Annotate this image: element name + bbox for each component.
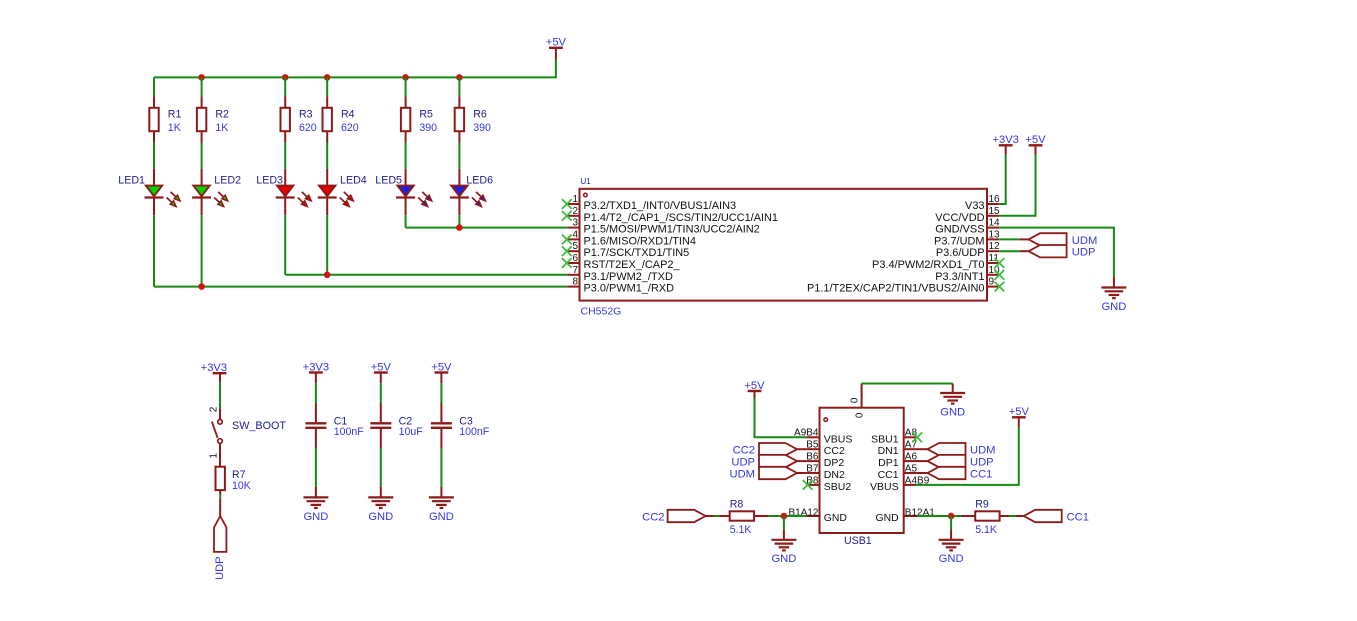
svg-text:5: 5 <box>572 241 578 252</box>
svg-text:R3: R3 <box>299 109 313 121</box>
svg-text:GND: GND <box>368 511 393 523</box>
wire +5V to pin 15 <box>999 155 1035 216</box>
svg-text:R4: R4 <box>341 109 355 121</box>
wire rail to R5 <box>405 77 407 96</box>
svg-text:CC2: CC2 <box>733 445 755 457</box>
svg-text:A7: A7 <box>905 440 918 451</box>
svg-text:12: 12 <box>989 241 1001 252</box>
no-connect pin 11 <box>995 258 1005 268</box>
net flag UDM (U1) <box>1020 233 1098 247</box>
svg-text:UDP: UDP <box>970 457 994 469</box>
svg-text:13: 13 <box>989 229 1001 240</box>
svg-text:P1.4/T2_/CAP1_/SCS/TIN2/UCC1/A: P1.4/T2_/CAP1_/SCS/TIN2/UCC1/AIN1 <box>584 212 779 224</box>
junction rail/R5 <box>402 74 409 81</box>
svg-text:VBUS: VBUS <box>824 433 853 445</box>
svg-text:0: 0 <box>849 397 860 403</box>
no-connect pin 2 <box>562 211 572 221</box>
svg-text:15: 15 <box>989 206 1001 217</box>
svg-text:GND: GND <box>303 511 328 523</box>
svg-text:CC1: CC1 <box>1067 511 1089 523</box>
svg-text:A8: A8 <box>905 428 918 439</box>
power +5V (C3) <box>431 361 452 383</box>
wire rail to R3 <box>284 77 286 96</box>
net flag CC2 (input) <box>642 510 714 524</box>
wire B12A1 to R9 <box>917 515 961 517</box>
svg-text:CC1: CC1 <box>878 469 899 481</box>
svg-text:16: 16 <box>989 194 1001 205</box>
junction LED6 bottom <box>456 224 463 231</box>
svg-text:GND: GND <box>824 513 847 524</box>
svg-text:P1.1/T2EX/CAP2/TIN1/VBUS2/AIN0: P1.1/T2EX/CAP2/TIN1/VBUS2/AIN0 <box>807 283 985 295</box>
net flag CC1 (input) <box>1015 510 1089 524</box>
svg-text:1: 1 <box>572 194 578 205</box>
wire +3V3 to C1 <box>315 383 317 403</box>
wire rail to R4 <box>326 77 328 96</box>
svg-text:DP2: DP2 <box>824 457 845 469</box>
no-connect SBU1 (A8) <box>912 432 922 442</box>
wire C1 to GND <box>315 448 317 487</box>
wire +5V to C3 <box>440 383 442 403</box>
svg-text:B5: B5 <box>806 440 819 451</box>
net flag UDM (to A7) <box>917 443 995 457</box>
svg-text:VCC/VDD: VCC/VDD <box>935 212 984 224</box>
ground GND (B1A12) <box>771 529 796 565</box>
junction B1A12 <box>781 513 788 520</box>
no-connect pin 1 <box>562 199 572 209</box>
IC U1 CH552G <box>567 177 1000 317</box>
LED LED2 <box>192 169 228 216</box>
svg-text:RST/T2EX_/CAP2_: RST/T2EX_/CAP2_ <box>584 259 681 271</box>
capacitor C3 <box>431 403 490 448</box>
wire +5V to VBUS A9B4 <box>755 398 807 437</box>
svg-text:CH552G: CH552G <box>581 305 622 317</box>
net flag CC1 (to A5) <box>917 467 992 481</box>
wire rail to R6 <box>458 77 460 96</box>
svg-text:7: 7 <box>572 265 578 276</box>
svg-text:390: 390 <box>473 122 491 134</box>
svg-text:R1: R1 <box>168 109 182 121</box>
wire +3V3 to pin 16 <box>999 155 1006 204</box>
net flag UDP (to A6) <box>917 455 994 469</box>
resistor R7 <box>216 467 251 495</box>
resistor R5 <box>401 96 437 142</box>
svg-text:5.1K: 5.1K <box>730 524 752 536</box>
svg-text:CC2: CC2 <box>824 445 845 457</box>
svg-text:R2: R2 <box>215 109 229 121</box>
svg-text:CC1: CC1 <box>970 468 992 480</box>
resistor R9 <box>961 498 1010 536</box>
power +5V (C2) <box>371 361 392 383</box>
svg-text:UDM: UDM <box>1072 235 1097 247</box>
connector USB1 <box>788 384 935 548</box>
wire LED1/LED2 to pin 8 <box>154 286 567 288</box>
svg-text:P1.6/MISO/RXD1/TIN4: P1.6/MISO/RXD1/TIN4 <box>584 235 696 247</box>
no-connect pin 5 <box>562 246 572 256</box>
LED LED5 <box>396 169 432 216</box>
svg-text:10uF: 10uF <box>399 426 424 438</box>
junction B12A1 <box>948 513 955 520</box>
svg-text:DN1: DN1 <box>878 445 899 457</box>
svg-text:UDP: UDP <box>731 457 755 469</box>
svg-text:CC2: CC2 <box>642 511 664 523</box>
svg-text:P3.4/PWM2/RXD1_/T0: P3.4/PWM2/RXD1_/T0 <box>872 259 984 271</box>
svg-text:P1.5/MOSI/PWM1/TIN3/UCC2/AIN2: P1.5/MOSI/PWM1/TIN3/UCC2/AIN2 <box>584 224 760 236</box>
wire LED6 down <box>458 215 460 227</box>
svg-text:1K: 1K <box>215 122 228 134</box>
ground GND (C2) <box>368 487 393 523</box>
svg-text:1K: 1K <box>168 122 181 134</box>
ground GND (shield) <box>940 384 965 419</box>
svg-text:P3.0/PWM1_/RXD: P3.0/PWM1_/RXD <box>584 283 675 295</box>
svg-text:V33: V33 <box>965 200 984 212</box>
junction rail/R4 <box>324 74 331 81</box>
svg-text:LED6: LED6 <box>466 175 493 187</box>
svg-text:620: 620 <box>299 122 317 134</box>
wire VBUS A4B9 to +5V <box>915 427 1019 485</box>
wire +3V3 to switch <box>219 382 221 408</box>
svg-text:5.1K: 5.1K <box>975 524 997 536</box>
net flag UDP (boot) <box>214 499 226 580</box>
svg-text:A6: A6 <box>905 452 918 463</box>
svg-text:GND: GND <box>771 553 796 565</box>
svg-text:GND: GND <box>939 553 964 565</box>
wire C2 to GND <box>380 448 382 487</box>
switch SW_BOOT <box>208 406 286 467</box>
svg-text:P3.3/INT1: P3.3/INT1 <box>935 271 984 283</box>
wire R3 to LED3 <box>284 143 286 169</box>
wire +5V rail <box>154 60 556 78</box>
wire R8 to GND pin B1A12 <box>769 515 807 517</box>
svg-text:1: 1 <box>208 453 219 459</box>
no-connect pin 4 <box>562 235 572 245</box>
wire R6 to LED6 <box>458 143 460 169</box>
wire junction to GND <box>950 516 952 529</box>
svg-text:GND: GND <box>876 513 899 524</box>
net flag UDP (to B6) <box>731 455 806 469</box>
wire CC2 to R8 <box>714 515 720 517</box>
resistor R1 <box>149 96 181 142</box>
svg-text:LED3: LED3 <box>256 175 283 187</box>
svg-text:10K: 10K <box>232 480 251 492</box>
svg-text:2: 2 <box>209 406 220 412</box>
no-connect pin 10 <box>995 270 1005 280</box>
wire +5V to C2 <box>380 383 382 403</box>
resistor R2 <box>197 96 229 142</box>
svg-text:B7: B7 <box>806 463 819 474</box>
LED LED3 <box>276 169 312 216</box>
net flag CC2 (to B5) <box>733 443 807 457</box>
svg-text:USB1: USB1 <box>844 535 872 547</box>
svg-text:SW_BOOT: SW_BOOT <box>232 420 286 432</box>
wire shield to GND <box>862 383 953 385</box>
svg-text:390: 390 <box>419 122 437 134</box>
svg-text:LED4: LED4 <box>340 175 367 187</box>
wire pin 12 to UDP flag <box>999 250 1020 252</box>
wire junction to GND <box>783 516 785 529</box>
wire R2 to LED2 <box>201 143 203 169</box>
svg-text:620: 620 <box>341 122 359 134</box>
power +5V (U1 VCC) <box>1025 134 1046 155</box>
svg-text:6: 6 <box>572 253 578 264</box>
junction rail/R2 <box>198 74 205 81</box>
wire R4 to LED4 <box>326 143 328 169</box>
svg-text:GND: GND <box>1101 301 1126 313</box>
LED LED4 <box>318 169 354 216</box>
power +5V (LED rail) <box>546 37 567 60</box>
wire R5 to LED5 <box>405 143 407 169</box>
svg-text:UDP: UDP <box>214 556 226 580</box>
svg-text:P3.6/UDP: P3.6/UDP <box>936 247 985 259</box>
svg-text:UDP: UDP <box>1072 247 1096 259</box>
svg-text:DP1: DP1 <box>878 457 899 469</box>
ground GND (U1 VSS) <box>1101 277 1126 313</box>
resistor R6 <box>455 96 491 142</box>
ground GND (C1) <box>303 487 328 523</box>
svg-text:R6: R6 <box>473 109 487 121</box>
wire LED5/LED6 to pin 3 <box>406 227 568 229</box>
svg-text:8: 8 <box>572 277 578 288</box>
svg-text:9: 9 <box>989 277 995 288</box>
wire R7 to UDP flag <box>219 495 221 500</box>
svg-text:100nF: 100nF <box>334 426 365 438</box>
power +5V (USB VBUS right) <box>1009 406 1030 427</box>
svg-text:P3.2/TXD1_/INT0/VBUS1/AIN3: P3.2/TXD1_/INT0/VBUS1/AIN3 <box>584 200 737 212</box>
junction LED2 bottom <box>198 283 205 290</box>
svg-text:R9: R9 <box>975 498 989 510</box>
svg-text:0: 0 <box>854 412 865 418</box>
junction rail/R6 <box>456 74 463 81</box>
LED LED6 <box>450 169 486 216</box>
wire R9 to CC1 <box>1010 515 1016 517</box>
ground GND (C3) <box>429 487 454 523</box>
resistor R8 <box>720 498 769 536</box>
junction rail/R3 <box>282 74 289 81</box>
svg-text:DN2: DN2 <box>824 469 845 481</box>
svg-text:R8: R8 <box>730 498 744 510</box>
svg-text:SBU1: SBU1 <box>871 433 899 445</box>
svg-text:UDM: UDM <box>970 445 995 457</box>
no-connect SBU2 (B8) <box>803 480 813 490</box>
wire LED3 down <box>284 215 286 275</box>
wire C3 to GND <box>440 448 442 487</box>
wire rail to R2 <box>201 77 203 96</box>
svg-text:P3.1/PWM2_/TXD: P3.1/PWM2_/TXD <box>584 271 673 283</box>
capacitor C1 <box>305 403 364 448</box>
svg-text:4: 4 <box>572 229 578 240</box>
wire rail to R1 <box>153 77 155 96</box>
junction LED4 bottom <box>324 272 331 279</box>
net flag UDP (U1) <box>1020 245 1096 259</box>
svg-text:GND: GND <box>940 406 965 418</box>
svg-text:UDM: UDM <box>730 468 755 480</box>
svg-text:14: 14 <box>989 218 1001 229</box>
svg-text:A5: A5 <box>905 463 918 474</box>
power +5V (USB VBUS left) <box>744 380 765 398</box>
svg-text:R7: R7 <box>232 469 246 481</box>
svg-text:100nF: 100nF <box>459 426 490 438</box>
svg-text:LED1: LED1 <box>118 175 145 187</box>
svg-text:GND/VSS: GND/VSS <box>935 224 984 236</box>
svg-text:B6: B6 <box>806 452 819 463</box>
wire LED4 down <box>326 215 328 275</box>
svg-text:3: 3 <box>572 218 578 229</box>
resistor R3 <box>281 96 317 142</box>
svg-text:P3.7/UDM: P3.7/UDM <box>934 235 984 247</box>
power +3V3 (SW_BOOT) <box>201 362 227 382</box>
power +3V3 (C1) <box>303 361 329 383</box>
svg-text:2: 2 <box>572 206 578 217</box>
svg-text:U1: U1 <box>581 177 592 186</box>
capacitor C2 <box>370 403 423 448</box>
svg-text:R5: R5 <box>419 109 433 121</box>
svg-text:LED5: LED5 <box>375 175 402 187</box>
power +3V3 (U1 V33) <box>992 134 1018 155</box>
wire LED3/LED4 to pin 7 <box>285 274 567 276</box>
svg-text:LED2: LED2 <box>214 175 241 187</box>
wire pin 13 to UDM flag <box>999 238 1020 240</box>
no-connect pin 9 <box>995 282 1005 292</box>
svg-text:GND: GND <box>429 511 454 523</box>
wire LED5 down <box>405 215 407 227</box>
svg-text:SBU2: SBU2 <box>824 481 852 493</box>
no-connect pin 6 <box>562 258 572 268</box>
wire LED2 down <box>201 215 203 286</box>
wire pin 14 to GND <box>999 228 1114 277</box>
net flag UDM (to B7) <box>730 467 807 481</box>
svg-text:P1.7/SCK/TXD1/TIN5: P1.7/SCK/TXD1/TIN5 <box>584 247 690 259</box>
LED LED1 <box>145 169 181 216</box>
ground GND (B12A1) <box>939 529 964 565</box>
wire R1 to LED1 <box>153 143 155 169</box>
resistor R4 <box>323 96 359 142</box>
svg-text:VBUS: VBUS <box>870 481 899 493</box>
wire LED1 down <box>153 215 155 286</box>
